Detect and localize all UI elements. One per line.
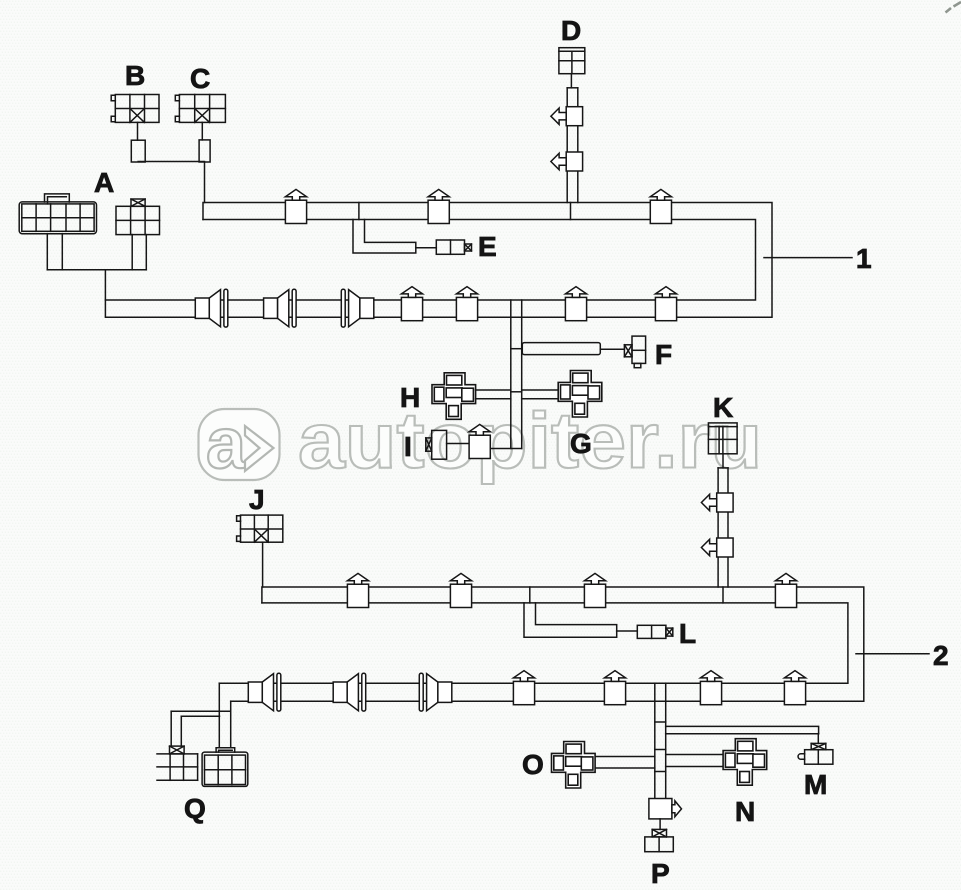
svg-text:O: O <box>522 749 544 780</box>
svg-text:a: a <box>206 404 247 484</box>
branch joint tick 2 <box>511 391 522 393</box>
svg-text:J: J <box>249 484 265 515</box>
clamp clip on h2 top rail 3 <box>584 573 605 607</box>
svg-text:1: 1 <box>856 243 872 274</box>
connector C <box>175 95 225 123</box>
grommet 1 on bottom rail <box>195 289 228 327</box>
wires from connector A <box>47 234 146 270</box>
clamp clip on h2 top rail 1 <box>347 573 368 607</box>
wire from B <box>137 122 139 140</box>
wire from K <box>722 454 724 468</box>
svg-text:M: M <box>804 769 827 800</box>
Q right connector housing <box>202 752 248 786</box>
clamp clip on h2 bottom rail 1 <box>513 671 534 705</box>
wire to E <box>416 247 437 249</box>
connector L <box>637 625 673 638</box>
junction tick K on harness 2 top rail <box>722 587 724 603</box>
grommet 3 on bottom rail (mirrored) <box>341 289 374 327</box>
branch joint tick a <box>655 721 666 723</box>
connector F <box>624 336 645 368</box>
connector M <box>798 743 833 764</box>
leader line harness 1 <box>764 257 852 259</box>
branch joint tick 1 <box>511 348 522 350</box>
clamp clip on h2 top rail 2 <box>450 573 471 607</box>
Q left connector housing <box>157 754 198 780</box>
wires from connector A2 <box>132 235 146 270</box>
wires to M <box>666 726 819 743</box>
svg-text:B: B <box>125 60 145 91</box>
svg-text:F: F <box>655 339 672 370</box>
junction tick L on harness 2 top rail <box>529 587 531 603</box>
clamp clip on bottom rail 4 <box>655 287 676 321</box>
wire G to branch <box>522 390 559 399</box>
wire branch to N <box>666 755 723 767</box>
clamp clip on bottom rail 3 <box>565 287 586 321</box>
Q right connector tab <box>216 748 235 752</box>
wire to L <box>617 630 638 632</box>
connector D <box>559 48 585 74</box>
E branch elbow <box>353 220 416 254</box>
svg-text:G: G <box>570 428 592 459</box>
connector A2 small housing <box>116 199 160 235</box>
branch joint tick c <box>655 771 666 773</box>
clip at P <box>649 799 682 819</box>
svg-text:A: A <box>94 167 114 198</box>
clip on K branch 2 <box>701 538 733 557</box>
connector H (cross) <box>432 373 476 420</box>
svg-text:L: L <box>679 618 696 649</box>
connector P <box>645 829 674 851</box>
clamp clip on top rail 2 <box>428 189 449 223</box>
wire H to branch <box>476 390 511 399</box>
clip on K branch 1 <box>701 493 733 512</box>
clip on D branch 2 <box>551 152 583 171</box>
D branch band <box>567 88 578 203</box>
connector I <box>426 430 447 459</box>
harness 2 top rail <box>219 587 864 701</box>
connector B <box>111 95 159 123</box>
connector J <box>237 515 283 542</box>
svg-text:H: H <box>400 382 420 413</box>
junction tick E branch on top rail <box>358 203 360 220</box>
connector K <box>708 423 737 454</box>
connector O (cross) <box>552 742 596 789</box>
clamp clip on h2 bottom rail 2 <box>604 671 625 705</box>
junction tick D on top rail <box>570 203 572 220</box>
wire sleeve B to sleeve C and down to rail <box>138 162 204 203</box>
grommet 1 on h2 bottom rail <box>248 673 280 711</box>
svg-text:P: P <box>651 858 670 889</box>
grommet 2 on bottom rail <box>264 289 297 327</box>
wire I to clip <box>447 443 470 445</box>
wire from C <box>201 122 203 139</box>
L branch elbow <box>524 603 617 637</box>
svg-text:autopiter.ru: autopiter.ru <box>298 396 762 485</box>
clamp clip on bottom rail 2 <box>456 287 477 321</box>
connector A main housing <box>19 194 96 234</box>
wire from J to rail <box>262 542 264 587</box>
svg-text:E: E <box>478 231 497 262</box>
svg-text:K: K <box>713 392 733 423</box>
connector E <box>436 240 471 254</box>
bottom branch band from harness 2 <box>655 683 666 798</box>
WATERMARK <box>199 2 961 485</box>
wire to F <box>600 348 624 350</box>
harness 1 top rail <box>105 203 772 318</box>
clamp clip on top rail 1 <box>285 189 306 223</box>
wire clip to P <box>659 819 661 830</box>
K branch band <box>718 468 728 587</box>
clip at I <box>469 424 490 458</box>
svg-text:2: 2 <box>933 640 949 671</box>
svg-text:Q: Q <box>184 793 206 824</box>
grommet 2 on h2 bottom rail <box>333 673 366 711</box>
Q drop band <box>219 683 230 747</box>
vertical branch band from harness 1 <box>490 300 522 449</box>
clamp clip on bottom rail 1 <box>401 287 422 321</box>
branch joint tick b <box>655 749 666 751</box>
leader line harness 2 <box>856 653 929 655</box>
svg-text:I: I <box>404 431 412 462</box>
clamp clip on h2 bottom rail 3 <box>700 671 721 705</box>
connector N (cross) <box>723 739 767 786</box>
wire from D <box>570 74 572 88</box>
Q left branch band <box>171 711 229 746</box>
clamp clip on h2 top rail 4 <box>775 573 796 607</box>
clamp clip on h2 bottom rail 4 <box>784 671 805 705</box>
svg-text:D: D <box>561 15 581 46</box>
X-box on Q left connector <box>170 746 185 754</box>
grommet 3 on h2 bottom rail (mirrored) <box>419 673 452 711</box>
sleeve under B <box>131 140 145 162</box>
svg-text:N: N <box>735 796 755 827</box>
svg-text:C: C <box>190 63 210 94</box>
wire O to branch <box>595 757 655 769</box>
clamp clip on top rail 3 <box>650 189 671 223</box>
connector G (cross) <box>558 371 602 418</box>
F branch band <box>522 343 600 355</box>
sleeve under C <box>199 140 210 162</box>
clip on D branch 1 <box>551 107 583 126</box>
